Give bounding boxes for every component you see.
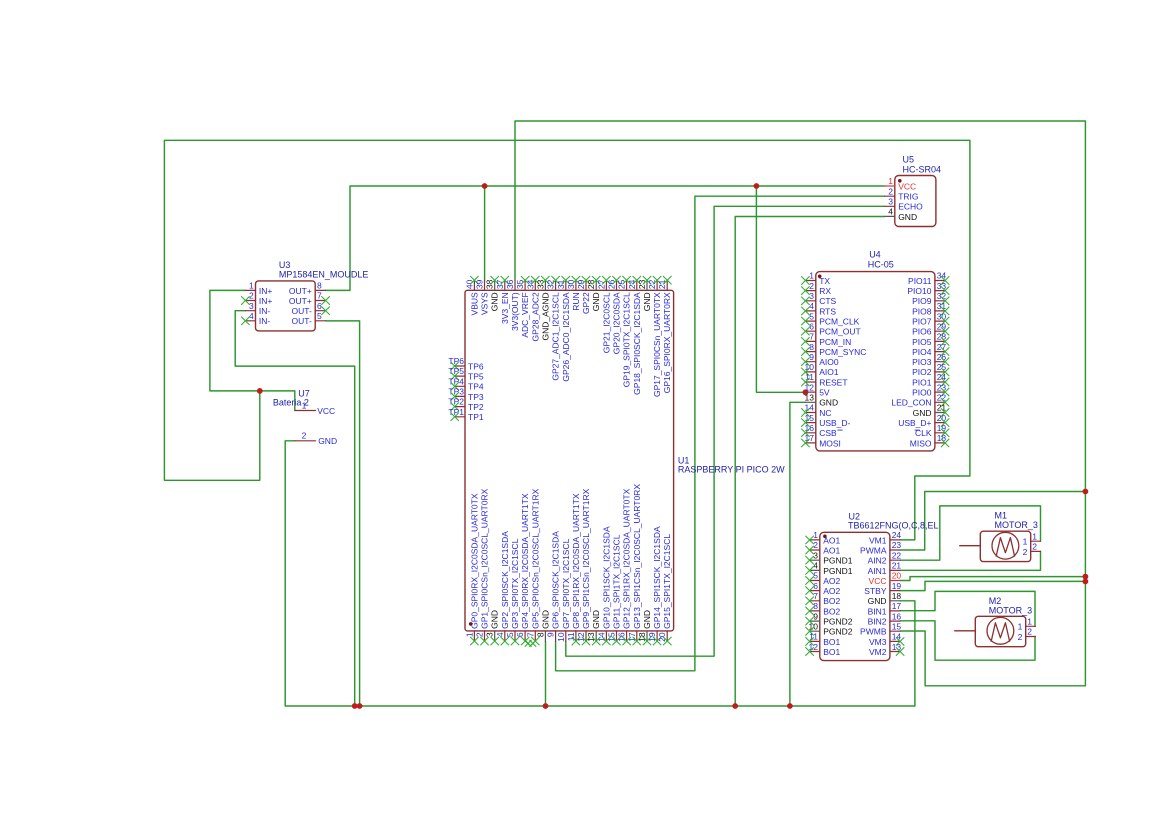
wire net BATT+ : long loop left-top to U2 VM1 xyxy=(164,140,970,540)
svg-text:24: 24 xyxy=(892,530,902,540)
U4 pin 18 MISO (right) xyxy=(935,442,945,444)
U1 pin 34 GP28_ADC2 (top) xyxy=(534,280,536,290)
U5 pin 4 GND xyxy=(885,215,895,217)
svg-text:18: 18 xyxy=(937,433,947,443)
U1 pin 26 GP20_I2C0SDA (top) xyxy=(616,280,618,290)
U1 pin 11 GP8_SPI1RX_I2C0SDA_UART1TX (bottom) xyxy=(575,631,577,641)
svg-text:34: 34 xyxy=(525,279,535,289)
svg-text:9: 9 xyxy=(546,632,556,637)
svg-text:PCM_CLK: PCM_CLK xyxy=(819,317,859,327)
svg-text:CTS: CTS xyxy=(819,296,836,306)
U4 pin 15 USB_D- (left) xyxy=(805,422,815,424)
U1 pin 9 GP6_SPI0SCK_I2C1SDA (bottom) xyxy=(555,631,557,641)
wire net GND : U1 pin 8 GND down to ground bus xyxy=(545,641,547,706)
U4 pin 16 CSB‾ (left) xyxy=(805,432,815,434)
M2 pin 1 xyxy=(1026,625,1036,627)
svg-text:AO2: AO2 xyxy=(823,576,840,586)
svg-text:22: 22 xyxy=(647,279,657,289)
svg-text:6: 6 xyxy=(515,632,525,637)
svg-text:18: 18 xyxy=(892,591,902,601)
U1 pin TP4 (left) xyxy=(455,385,465,387)
svg-text:OUT-: OUT- xyxy=(291,306,311,316)
svg-text:3: 3 xyxy=(249,301,254,311)
U1 pin 22 GP17_SPI0CSn_UART0TX (top) xyxy=(656,280,658,290)
svg-text:GP26_ADC0_I2C1SDA: GP26_ADC0_I2C1SDA xyxy=(561,292,571,382)
svg-text:4: 4 xyxy=(249,311,254,321)
U4 pin 20 USB_D+ (right) xyxy=(935,422,945,424)
svg-text:GND: GND xyxy=(318,436,337,446)
U4 pin 13 GND (left) xyxy=(805,401,815,403)
svg-text:23: 23 xyxy=(892,540,902,550)
svg-text:OUT-: OUT- xyxy=(291,316,311,326)
svg-text:ECHO: ECHO xyxy=(898,202,923,212)
U4 pin 6 PCM_OUT (left) xyxy=(805,330,815,332)
svg-text:USB_D-: USB_D- xyxy=(819,418,850,428)
svg-text:13: 13 xyxy=(586,632,596,642)
svg-text:BIN1: BIN1 xyxy=(868,606,887,616)
svg-text:GP15_SPI1TX_I2C1SCL: GP15_SPI1TX_I2C1SCL xyxy=(662,534,672,629)
svg-text:17: 17 xyxy=(627,632,637,642)
wire net BOUT2 : U2.BIN2 pin 16 loop under M2 to M2 pin 2 xyxy=(900,621,1035,660)
svg-text:17: 17 xyxy=(892,601,902,611)
svg-text:28: 28 xyxy=(937,332,947,342)
svg-text:GND_AGND: GND_AGND xyxy=(540,292,550,340)
svg-text:2: 2 xyxy=(1018,632,1023,642)
wire net +5V : U3.OUT+ up and across to U5.VCC xyxy=(326,186,885,290)
svg-text:2: 2 xyxy=(1023,547,1028,557)
svg-text:20: 20 xyxy=(937,413,947,423)
svg-text:AO2: AO2 xyxy=(823,586,840,596)
U3 pin 4 IN- (left) xyxy=(245,320,255,322)
U2 pin 4 PGND1 (left) xyxy=(810,569,820,571)
U2 pin 2 AO1 (left) xyxy=(810,549,820,551)
svg-text:GND: GND xyxy=(591,292,601,311)
U4 pin 14 NC (left) xyxy=(805,412,815,414)
junction +5V at U4 5V drop xyxy=(754,183,760,189)
svg-text:RUN: RUN xyxy=(571,292,581,310)
svg-text:PIO4: PIO4 xyxy=(912,347,932,357)
svg-text:GP3_SPI0TX_I2C1SCL: GP3_SPI0TX_I2C1SCL xyxy=(510,538,520,629)
svg-text:21: 21 xyxy=(937,403,947,413)
IC U2 TB6612FNG motor driver xyxy=(805,511,938,660)
junction GND at U3 OUT- xyxy=(357,703,363,709)
wire net BATT+ : U3.IN+ to battery VCC, loop to U2.VM1 xyxy=(210,290,295,410)
U1 pin 39 VSYS (top) xyxy=(484,280,486,290)
svg-text:2: 2 xyxy=(809,281,814,291)
svg-text:VCC: VCC xyxy=(317,406,335,416)
wire net GND : U5.GND pin 4 down to ground bus xyxy=(735,217,884,707)
svg-text:8: 8 xyxy=(317,281,322,291)
U1 pin TP6 (left) xyxy=(455,365,465,367)
U4 pin 32 PIO9 (right) xyxy=(935,300,945,302)
svg-text:1: 1 xyxy=(813,530,818,540)
wire net +3V3 : U2.PWMA pin 23 to right bus xyxy=(900,492,1085,551)
IC U3 MP1584EN_MOUDLE buck converter xyxy=(241,260,368,331)
svg-text:25: 25 xyxy=(937,362,947,372)
svg-text:GP2_SPI0SCK_I2C1SDA: GP2_SPI0SCK_I2C1SDA xyxy=(500,531,510,629)
svg-text:PIO10: PIO10 xyxy=(907,286,931,296)
U3 pin 3 IN- (left) xyxy=(245,310,255,312)
svg-text:7: 7 xyxy=(525,632,535,637)
svg-text:2: 2 xyxy=(1032,542,1037,552)
svg-text:IN-: IN- xyxy=(259,306,271,316)
U1 pin TP2 (left) xyxy=(455,406,465,408)
svg-text:35: 35 xyxy=(515,279,525,289)
svg-text:2: 2 xyxy=(302,430,307,440)
svg-text:PIO1: PIO1 xyxy=(912,377,932,387)
IC U5 HC-SR04 ultrasonic sensor xyxy=(885,155,941,227)
M1 circle symbol xyxy=(992,532,1019,559)
svg-text:GND: GND xyxy=(913,408,932,418)
U1 pin 15 GP11_SPI1TX_I2C1SCL (bottom) xyxy=(616,631,618,641)
junction +3V3 at PWMA xyxy=(1083,489,1089,495)
U4 pin 7 PCM_IN (left) xyxy=(805,340,815,342)
U1 pin TP1 (left) xyxy=(455,416,465,418)
U1 pin 24 GP18_SPI0SCK_I2C1SDA (top) xyxy=(636,280,638,290)
U1 pin 17 GP13_SPI1CSn_I2C0SCL_UART0RX (bottom) xyxy=(636,631,638,641)
svg-text:19: 19 xyxy=(937,423,947,433)
svg-text:MOTOR_3: MOTOR_3 xyxy=(995,520,1038,530)
U3 pin 2 IN+ (left) xyxy=(245,300,255,302)
U1 pin 23 GND (top) xyxy=(646,280,648,290)
U2 pin 1 indicator dot xyxy=(823,535,827,539)
U4 pin 21 GND (right) xyxy=(935,412,945,414)
U5 pin 1 indicator dot xyxy=(898,179,902,183)
svg-text:RESET: RESET xyxy=(819,377,847,387)
svg-text:GP21_I2C0SCL: GP21_I2C0SCL xyxy=(601,292,611,353)
U1 pin 32 GP27_ADC1_I2C1SCL (top) xyxy=(555,280,557,290)
U7 pin 2 GND xyxy=(295,440,316,442)
svg-text:TRIG: TRIG xyxy=(898,192,918,202)
svg-text:U5: U5 xyxy=(903,155,915,165)
svg-text:2: 2 xyxy=(475,632,485,637)
svg-text:GND: GND xyxy=(898,212,917,222)
svg-text:8: 8 xyxy=(809,342,814,352)
U1 pin 29 GP22 (top) xyxy=(585,280,587,290)
svg-text:1: 1 xyxy=(888,176,893,186)
wire net GND : U3.IN- pin 3 down to ground bus xyxy=(235,311,355,706)
svg-text:GP18_SPI0SCK_I2C1SDA: GP18_SPI0SCK_I2C1SDA xyxy=(632,292,642,395)
wire net BOUT1 : U2.BIN1 pin 17 loop over M2 to M2 pin 1 xyxy=(900,591,1035,626)
U1 pin 4 GP2_SPI0SCK_I2C1SDA (bottom) xyxy=(504,631,506,641)
svg-text:5: 5 xyxy=(505,632,515,637)
svg-text:GND: GND xyxy=(642,610,652,629)
svg-text:3V3_EN: 3V3_EN xyxy=(500,292,510,324)
svg-text:VCC: VCC xyxy=(898,181,916,191)
svg-text:TX: TX xyxy=(819,276,830,286)
svg-text:27: 27 xyxy=(937,342,947,352)
svg-text:AIN1: AIN1 xyxy=(868,566,887,576)
svg-text:RASPBERRY PI PICO 2W: RASPBERRY PI PICO 2W xyxy=(678,465,785,475)
svg-text:23: 23 xyxy=(937,382,947,392)
svg-text:AIO1: AIO1 xyxy=(819,367,839,377)
svg-text:GP27_ADC1_I2C1SCL: GP27_ADC1_I2C1SCL xyxy=(551,292,561,381)
svg-text:33: 33 xyxy=(535,279,545,289)
svg-text:1: 1 xyxy=(1018,622,1023,632)
IC U4 HC-05 bluetooth module xyxy=(801,250,949,451)
junction GND at U4 GND xyxy=(787,703,793,709)
U2 pin 22 AIN2 (right) xyxy=(890,559,900,561)
svg-text:34: 34 xyxy=(937,271,947,281)
svg-text:STBY: STBY xyxy=(864,586,887,596)
svg-text:6: 6 xyxy=(813,581,818,591)
svg-text:31: 31 xyxy=(556,279,566,289)
svg-text:VM3: VM3 xyxy=(869,637,887,647)
svg-text:32: 32 xyxy=(937,291,947,301)
svg-text:30: 30 xyxy=(937,311,947,321)
U2 pin 24 VM1 (right) xyxy=(890,539,900,541)
U2 pin 15 PWMB (right) xyxy=(890,630,900,632)
svg-text:GP22: GP22 xyxy=(581,292,591,314)
svg-text:RTS: RTS xyxy=(819,306,836,316)
U2 pin 21 AIN1 (right) xyxy=(890,569,900,571)
wire net GND : U3.OUT- pin 5 down to ground bus xyxy=(326,321,360,706)
svg-text:PCM_IN: PCM_IN xyxy=(819,337,851,347)
svg-text:4: 4 xyxy=(813,561,818,571)
svg-text:OUT+: OUT+ xyxy=(289,296,312,306)
svg-text:HC-SR04: HC-SR04 xyxy=(903,165,942,175)
svg-text:8: 8 xyxy=(535,632,545,637)
U4 pin 2 RX (left) xyxy=(805,290,815,292)
svg-text:18: 18 xyxy=(637,632,647,642)
U5 pin 3 ECHO xyxy=(885,205,895,207)
svg-text:PCM_OUT: PCM_OUT xyxy=(819,327,861,337)
svg-text:40: 40 xyxy=(464,279,474,289)
svg-text:IN-: IN- xyxy=(259,316,271,326)
U1 pin 18 GND (bottom) xyxy=(646,631,648,641)
U1 pin 7 GP5_SPI0CSn_I2C0SCL_UART1RX (bottom) xyxy=(534,631,536,641)
svg-text:4: 4 xyxy=(809,301,814,311)
U2 body xyxy=(820,532,890,660)
U5 pin 2 TRIG xyxy=(885,195,895,197)
svg-text:MISO: MISO xyxy=(910,438,932,448)
wire net AOUT2 : U2.AIN1 pin 21 to M1 pin 2 xyxy=(900,551,1040,570)
U1 pin 38 GND (top) xyxy=(494,280,496,290)
svg-text:TP2: TP2 xyxy=(468,402,484,412)
U2 pin 11 BO1 (left) xyxy=(810,640,820,642)
svg-text:24: 24 xyxy=(937,372,947,382)
svg-text:TP1: TP1 xyxy=(468,412,484,422)
svg-text:U4: U4 xyxy=(869,250,881,260)
svg-text:3: 3 xyxy=(888,197,893,207)
U4 pin 1 TX (left) xyxy=(805,280,815,282)
U3 body xyxy=(256,281,316,331)
svg-text:16: 16 xyxy=(617,632,627,642)
svg-text:NC: NC xyxy=(819,408,831,418)
svg-text:16: 16 xyxy=(805,423,815,433)
IC U1 RASPBERRY PI PICO 2W xyxy=(448,276,785,647)
svg-text:3: 3 xyxy=(809,291,814,301)
wire net +5V : drop to U4 pin 12 (5V) xyxy=(756,186,805,392)
svg-text:AO1: AO1 xyxy=(823,545,840,555)
svg-text:VM2: VM2 xyxy=(869,647,887,657)
M2 pin 2 xyxy=(1026,636,1036,638)
svg-text:5V: 5V xyxy=(819,388,830,398)
svg-text:6: 6 xyxy=(809,321,814,331)
U2 pin 5 AO2 (left) xyxy=(810,580,820,582)
svg-text:1: 1 xyxy=(1032,531,1037,541)
U1 pin 10 GP7_SPI0TX_I2C1SCL (bottom) xyxy=(565,631,567,641)
svg-text:MP1584EN_MOUDLE: MP1584EN_MOUDLE xyxy=(279,269,369,279)
svg-text:10: 10 xyxy=(809,622,819,632)
svg-text:32: 32 xyxy=(546,279,556,289)
U7 pin 1 VCC xyxy=(295,410,316,412)
svg-text:6: 6 xyxy=(317,301,322,311)
svg-text:OUT+: OUT+ xyxy=(289,286,312,296)
U1 pin 3 GND (bottom) xyxy=(494,631,496,641)
svg-text:13: 13 xyxy=(892,642,902,652)
svg-text:BO2: BO2 xyxy=(823,606,840,616)
svg-text:1: 1 xyxy=(464,632,474,637)
U1 pin 36 3V3(OUT) (top) xyxy=(514,280,516,290)
svg-text:9: 9 xyxy=(813,611,818,621)
svg-text:CSB: CSB xyxy=(819,428,837,438)
svg-text:GP11_SPI1TX_I2C1SCL: GP11_SPI1TX_I2C1SCL xyxy=(612,534,622,629)
wire net ECHO : U1 pin 10 GP7 to U5.ECHO xyxy=(566,206,885,656)
svg-text:GP20_I2C0SDA: GP20_I2C0SDA xyxy=(612,292,622,354)
svg-text:GP12_SPI1RX_I2C0SDA_UART0TX: GP12_SPI1RX_I2C0SDA_UART0TX xyxy=(622,488,632,628)
wire net TRIG : U1 pin 9 GP6 to U5.TRIG xyxy=(556,196,885,671)
svg-text:PIO2: PIO2 xyxy=(912,367,932,377)
U1 pin TP5 (left) xyxy=(455,375,465,377)
M2 body xyxy=(975,616,1025,646)
U1 body xyxy=(465,290,674,631)
svg-text:USB_D+: USB_D+ xyxy=(898,418,931,428)
svg-text:RX: RX xyxy=(819,286,831,296)
U1 pin 5 GP3_SPI0TX_I2C1SCL (bottom) xyxy=(514,631,516,641)
U1 pin 33 GND_AGND (top) xyxy=(544,280,546,290)
wire net GND : ground bus along bottom xyxy=(285,705,915,707)
wire net +3V3 : U2.VCC pin 20 to right bus xyxy=(900,577,1085,581)
U1 pin 13 GND (bottom) xyxy=(595,631,597,641)
U4 pin 33 PIO10 (right) xyxy=(935,290,945,292)
svg-text:TP3: TP3 xyxy=(468,392,484,402)
svg-text:5: 5 xyxy=(809,311,814,321)
svg-text:22: 22 xyxy=(937,393,947,403)
svg-text:TP4: TP4 xyxy=(468,382,484,392)
svg-text:GP1_SPI0CSn_I2C0SCL_UART0RX: GP1_SPI0CSn_I2C0SCL_UART0RX xyxy=(480,488,490,628)
svg-text:24: 24 xyxy=(627,279,637,289)
U1 pin 25 GP19_SPI0TX_I2C1SCL (top) xyxy=(626,280,628,290)
svg-text:7: 7 xyxy=(813,591,818,601)
svg-text:GND: GND xyxy=(490,610,500,629)
U3 pin 7 OUT+ (right) xyxy=(315,300,325,302)
svg-text:PIO0: PIO0 xyxy=(912,388,932,398)
svg-text:GP13_SPI1CSn_I2C0SCL_UART0RX: GP13_SPI1CSn_I2C0SCL_UART0RX xyxy=(632,484,642,629)
svg-text:GND: GND xyxy=(591,610,601,629)
svg-text:PIO8: PIO8 xyxy=(912,306,932,316)
U1 pin 27 GP21_I2C0SCL (top) xyxy=(605,280,607,290)
svg-text:AIO0: AIO0 xyxy=(819,357,839,367)
svg-text:BO1: BO1 xyxy=(823,647,840,657)
U4 pin 1 indicator dot xyxy=(818,275,822,279)
U3 pin 8 OUT+ (right) xyxy=(315,289,325,291)
U2 pin 17 BIN1 (right) xyxy=(890,610,900,612)
U4 pin 27 PIO4 (right) xyxy=(935,351,945,353)
M2 shaft line xyxy=(955,630,976,632)
motor M1 MOTOR_3 xyxy=(960,511,1041,562)
svg-text:PIO11: PIO11 xyxy=(908,276,932,286)
svg-text:GND: GND xyxy=(868,596,887,606)
svg-text:2: 2 xyxy=(1027,627,1032,637)
svg-text:GP6_SPI0SCK_I2C1SDA: GP6_SPI0SCK_I2C1SDA xyxy=(551,531,561,629)
svg-text:AIN2: AIN2 xyxy=(868,556,887,566)
svg-text:PIO9: PIO9 xyxy=(912,296,932,306)
svg-text:GP14_SPI1SCK_I2C1SDA: GP14_SPI1SCK_I2C1SDA xyxy=(652,526,662,629)
svg-text:TB6612FNG(O,C,8,EL: TB6612FNG(O,C,8,EL xyxy=(848,521,939,531)
svg-text:VBUS: VBUS xyxy=(469,292,479,315)
svg-text:PWMB: PWMB xyxy=(860,627,887,637)
svg-text:27: 27 xyxy=(596,279,606,289)
wire net GND : U2.GND pin 18 down to ground bus xyxy=(900,601,915,706)
U1 pin 30 RUN (top) xyxy=(575,280,577,290)
wire net +5V : drop to U1.VSYS pin 39 xyxy=(484,186,486,280)
U3 pin 5 OUT- (right) xyxy=(315,320,325,322)
svg-text:GP7_SPI0TX_I2C1SCL: GP7_SPI0TX_I2C1SCL xyxy=(561,538,571,629)
svg-text:CLK: CLK xyxy=(915,428,932,438)
svg-text:GND: GND xyxy=(642,292,652,311)
U4 pin 30 PIO7 (right) xyxy=(935,320,945,322)
svg-text:HC-05: HC-05 xyxy=(868,260,894,270)
extra no-connect marks near U1 pin 7 xyxy=(525,640,532,647)
svg-text:36: 36 xyxy=(505,279,515,289)
M1 pin 1 xyxy=(1031,540,1041,542)
svg-text:21: 21 xyxy=(657,279,667,289)
svg-text:GP0_SPI0RX_I2C0SDA_UART0TX: GP0_SPI0RX_I2C0SDA_UART0TX xyxy=(469,493,479,629)
U4 pin 5 PCM_CLK (left) xyxy=(805,320,815,322)
svg-text:IN+: IN+ xyxy=(259,286,273,296)
svg-text:VCC: VCC xyxy=(869,576,887,586)
svg-text:GP4_SPI0RX_I2C0SDA_UART1TX: GP4_SPI0RX_I2C0SDA_UART1TX xyxy=(520,493,530,629)
svg-text:VM1: VM1 xyxy=(869,535,887,545)
wire net +3V3 : U1 pin 36 up, across top, down right bus xyxy=(515,121,1085,686)
U4 pin 25 PIO2 (right) xyxy=(935,371,945,373)
U4 pin 17 MOSI (left) xyxy=(805,442,815,444)
U2 pin 19 STBY (right) xyxy=(890,590,900,592)
U1 pin 35 ADC_VREF (top) xyxy=(524,280,526,290)
wire net AOUT1 : U2.AIN2 pin 22 loop over M1 to M1 pin 1 xyxy=(900,506,1040,560)
U3 pin 1 IN+ (left) xyxy=(245,289,255,291)
U1 pin 1 indicator dot xyxy=(469,622,473,626)
svg-text:1: 1 xyxy=(1027,617,1032,627)
wire net GND : U4.GND pin 13 down to ground bus xyxy=(790,402,806,706)
svg-text:GP19_SPI0TX_I2C1SCL: GP19_SPI0TX_I2C1SCL xyxy=(622,292,632,387)
U1 pin 28 GND (top) xyxy=(595,280,597,290)
U2 pin 7 BO2 (left) xyxy=(810,600,820,602)
svg-text:GP16_SPI0RX_UART0RX: GP16_SPI0RX_UART0RX xyxy=(662,292,672,393)
U4 pin 22 LED_CON (right) xyxy=(935,401,945,403)
svg-text:5: 5 xyxy=(813,571,818,581)
junction GND at U5 GND xyxy=(732,703,738,709)
U1 pin 21 GP16_SPI0RX_UART0RX (top) xyxy=(666,280,668,290)
svg-text:26: 26 xyxy=(607,279,617,289)
svg-text:ADC_VREF: ADC_VREF xyxy=(520,292,530,337)
svg-text:PGND2: PGND2 xyxy=(823,617,853,627)
junction +5V at VSYS drop xyxy=(482,183,488,189)
U4 pin 24 PIO1 (right) xyxy=(935,381,945,383)
svg-text:37: 37 xyxy=(495,279,505,289)
U1 pin 14 GP10_SPI1SCK_I2C1SDA (bottom) xyxy=(605,631,607,641)
junction GND at U1 pin 8 xyxy=(543,703,549,709)
U2 pin 18 GND (right) xyxy=(890,600,900,602)
svg-text:PIO7: PIO7 xyxy=(912,317,932,327)
svg-text:1: 1 xyxy=(302,400,307,410)
svg-text:14: 14 xyxy=(892,632,902,642)
U2 pin 12 BO1 (left) xyxy=(810,651,820,653)
U2 pin 1 AO1 (left) xyxy=(810,539,820,541)
svg-text:GP28_ADC2: GP28_ADC2 xyxy=(530,292,540,341)
U4 pin 8 PCM_SYNC (left) xyxy=(805,351,815,353)
